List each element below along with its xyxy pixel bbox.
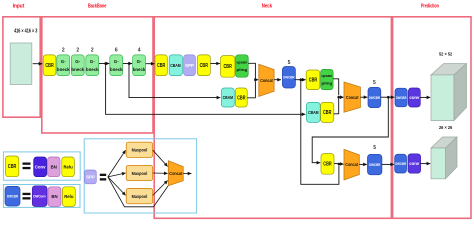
maxpool 3 (126, 189, 152, 204)
wire maxpool3 to SPP concat (153, 181, 168, 196)
svg-text:5: 5 (373, 80, 376, 86)
DWCBR 1 (282, 67, 295, 89)
svg-text:pling: pling (322, 81, 333, 86)
svg-text:SPP: SPP (185, 63, 194, 68)
svg-text:DWConv: DWConv (33, 194, 46, 198)
junction before concat3 (338, 163, 341, 166)
svg-text:4: 4 (138, 47, 141, 53)
maxpool 2 (126, 165, 152, 180)
svg-text:CBR: CBR (200, 63, 209, 69)
G-bneck 4 (110, 55, 123, 76)
wire bypass fan to SPP concat (108, 177, 168, 207)
junction node stride8 (104, 62, 107, 65)
wire DWCBR2 down to CBR e (312, 97, 388, 163)
legend Relu row1 (62, 157, 75, 177)
legend BN row1 (48, 157, 61, 177)
wire fan to maxpool1 (108, 150, 126, 177)
svg-text:conv: conv (409, 95, 420, 100)
G-bneck 2 (71, 55, 84, 76)
svg-text:5: 5 (373, 145, 376, 151)
concat 2 (344, 82, 360, 112)
svg-text:5: 5 (288, 60, 291, 66)
wire concat1 to DWCBR1 (274, 79, 281, 81)
G-bneck 5 (133, 55, 146, 76)
SPP detail frame (84, 139, 196, 213)
svg-text:DWCBR: DWCBR (395, 162, 406, 166)
svg-text:Conv: Conv (35, 164, 46, 169)
svg-text:6: 6 (115, 47, 118, 53)
equals sign row2 (23, 193, 31, 195)
backbone CBR (43, 55, 56, 76)
wire CBR skip16 up to junction (247, 81, 255, 98)
svg-text:BN: BN (51, 194, 57, 199)
svg-text:BackBone: BackBone (88, 3, 106, 9)
svg-text:bneck: bneck (133, 67, 146, 72)
svg-text:upsam: upsam (237, 60, 248, 65)
prediction conv lower (408, 154, 421, 173)
wire input to backbone CBR (33, 63, 43, 65)
junction node stride16 (128, 62, 131, 65)
svg-text:Input: Input (13, 3, 25, 9)
svg-text:CBAM: CBAM (170, 63, 181, 68)
SPP module (184, 55, 196, 76)
svg-text:CBR: CBR (8, 164, 17, 170)
DWCBR 2 (368, 87, 381, 107)
wire CBR e to junction3 (334, 162, 344, 165)
svg-text:Relu: Relu (64, 194, 74, 199)
prediction DWCBR upper (395, 88, 407, 107)
svg-text:Maxpool: Maxpool (132, 194, 148, 200)
svg-text:CBR: CBR (224, 64, 233, 70)
svg-text:CBR: CBR (45, 63, 54, 69)
legend DWConv (32, 186, 47, 207)
svg-text:DWCBR: DWCBR (369, 95, 380, 100)
wire fan to maxpool3 (108, 177, 126, 196)
wire DWCBR2 to prediction DWCBR upper (381, 96, 395, 98)
svg-text:pling: pling (237, 67, 248, 72)
svg-text:Relu: Relu (63, 164, 73, 169)
legend row1 frame (3, 152, 80, 180)
neck CBR c (221, 56, 235, 78)
svg-text:CBR: CBR (309, 78, 318, 84)
svg-text:G-: G- (90, 59, 95, 64)
wire into concat1 (255, 79, 258, 81)
svg-text:Maxpool: Maxpool (132, 171, 148, 177)
SPP legend box (85, 170, 97, 184)
svg-text:DWCBR: DWCBR (283, 75, 294, 80)
wire DWCBR1 down to concat3 junction (301, 80, 339, 185)
legend Relu row2 (62, 187, 75, 207)
svg-text:CBAM: CBAM (308, 110, 319, 115)
wire maxpool1 to SPP concat (153, 150, 168, 166)
output tensor 26x26 (431, 137, 457, 179)
svg-text:bneck: bneck (71, 67, 84, 72)
CBAM skip8 (306, 102, 320, 122)
legend Conv (34, 157, 47, 177)
svg-text:Concat: Concat (169, 171, 182, 176)
svg-text:upsam: upsam (322, 73, 333, 78)
legend DWCBR (5, 186, 20, 206)
CBR skip16 (235, 88, 247, 107)
wire concat3 to DWCBR3 (359, 163, 367, 165)
junction before concat1 (254, 78, 257, 81)
prediction conv upper (408, 88, 420, 107)
prediction section frame (393, 17, 471, 219)
svg-text:2: 2 (91, 47, 94, 53)
wire SPP concat out (183, 173, 191, 175)
wire G-bneck3 to G-bneck4 (99, 63, 109, 65)
wire DWCBR3 to prediction DWCBR lower (382, 163, 394, 165)
svg-text:Concat: Concat (345, 162, 358, 167)
DWCBR 3 (368, 154, 382, 175)
legend CBR (5, 156, 18, 177)
G-bneck 1 (57, 55, 70, 76)
svg-text:52 × 52: 52 × 52 (439, 52, 453, 57)
wire upsampling1 down to junction (248, 63, 255, 78)
svg-text:DWCBR: DWCBR (396, 96, 407, 100)
svg-text:bneck: bneck (57, 67, 70, 72)
wire CBR skip8 up to junction2 (334, 99, 339, 114)
neck CBR d (306, 70, 320, 90)
equals sign row1 (23, 163, 31, 165)
svg-text:CBR: CBR (323, 162, 332, 168)
junction after DWCBR2 (387, 96, 390, 99)
svg-text:Prediction: Prediction (421, 3, 439, 9)
SPP concat (168, 161, 183, 186)
prediction DWCBR lower (395, 154, 407, 173)
upsampling 2 (321, 69, 333, 89)
legend BN row2 (48, 187, 61, 207)
CBR skip8 (321, 102, 334, 122)
wire fan to maxpool2 (108, 173, 126, 177)
svg-text:Concat: Concat (260, 78, 273, 83)
wire maxpool2 to SPP concat (153, 172, 168, 174)
wire G-bneck5 to neck CBR (146, 63, 155, 65)
svg-text:Neck: Neck (262, 3, 273, 9)
svg-text:CBR: CBR (237, 95, 246, 101)
svg-text:416 × 416 × 3: 416 × 416 × 3 (14, 28, 37, 34)
svg-text:G-: G- (75, 59, 80, 64)
svg-text:bneck: bneck (86, 67, 99, 72)
wire into concat2 (339, 96, 344, 98)
svg-text:2: 2 (76, 47, 79, 53)
wire conv to output 52 (420, 96, 430, 98)
backbone section frame (42, 17, 153, 133)
svg-text:G-: G- (137, 59, 142, 64)
output tensor 52x52 (431, 64, 467, 121)
wire CBR b to CBR c (211, 63, 220, 65)
concat 3 (344, 149, 359, 180)
wire concat2 to DWCBR2 (360, 96, 367, 98)
concat 1 (259, 64, 274, 96)
wire G-bneck4 to G-bneck5 (123, 63, 132, 65)
neck section frame (154, 17, 391, 219)
svg-text:bneck: bneck (110, 67, 123, 72)
svg-text:Maxpool: Maxpool (132, 148, 148, 154)
svg-text:2: 2 (62, 47, 65, 53)
wire backbone skip stride8 to CBAM skip8 (106, 64, 306, 115)
G-bneck 3 (86, 55, 99, 76)
wire upsampling2 down to junction2 (333, 79, 339, 95)
maxpool 1 (126, 142, 152, 157)
svg-text:CBR: CBR (323, 110, 332, 116)
svg-text:CBR: CBR (157, 63, 166, 69)
svg-text:G-: G- (61, 59, 66, 64)
svg-text:conv: conv (409, 161, 420, 166)
neck CBR b (197, 55, 210, 76)
upsampling 1 (236, 55, 249, 77)
svg-text:SPP: SPP (86, 175, 95, 180)
junction after DWCBR1 (300, 78, 303, 81)
wire DWCBR1 to CBR d (295, 79, 306, 81)
svg-text:DWCBR: DWCBR (369, 162, 380, 167)
svg-text:26 × 26: 26 × 26 (439, 125, 453, 130)
svg-text:CBAM: CBAM (223, 95, 234, 100)
input tensor (10, 43, 32, 85)
neck CBR e (321, 154, 334, 175)
junction before concat2 (337, 96, 340, 99)
svg-text:BN: BN (51, 164, 57, 169)
neck CBR a (155, 55, 167, 76)
wire conv to output 26 (421, 163, 431, 165)
svg-text:G-: G- (114, 59, 119, 64)
input section frame (3, 17, 40, 117)
CBAM skip16 (221, 88, 234, 107)
svg-text:DWCBR: DWCBR (7, 195, 18, 199)
legend row2 frame (3, 185, 80, 208)
equals sign SPP (100, 174, 106, 176)
wire backbone skip stride16 to CBAM skip16 (129, 64, 220, 98)
CBAM a (169, 55, 182, 76)
svg-text:Concat: Concat (346, 95, 359, 100)
